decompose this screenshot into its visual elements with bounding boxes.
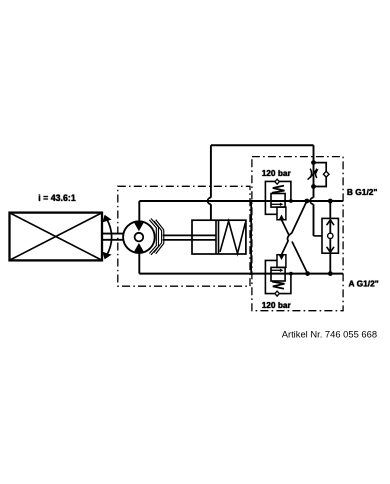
svg-text:i = 43.6:1: i = 43.6:1 [38, 193, 76, 203]
svg-text:120 bar: 120 bar [262, 168, 292, 178]
svg-text:120 bar: 120 bar [262, 300, 292, 310]
svg-text:Artikel Nr. 746 055 668: Artikel Nr. 746 055 668 [282, 328, 377, 339]
svg-text:B G1/2": B G1/2" [347, 187, 378, 197]
svg-text:A G1/2": A G1/2" [349, 278, 379, 288]
